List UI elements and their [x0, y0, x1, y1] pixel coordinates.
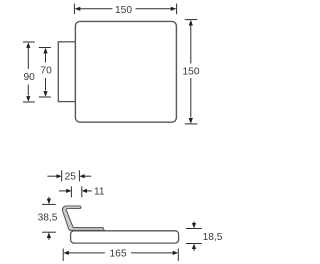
svg-text:38,5: 38,5 — [38, 213, 58, 224]
svg-text:150: 150 — [115, 5, 132, 16]
svg-text:90: 90 — [24, 72, 36, 83]
svg-text:25: 25 — [65, 172, 77, 183]
svg-text:70: 70 — [40, 66, 52, 77]
svg-text:18,5: 18,5 — [203, 232, 223, 243]
svg-text:165: 165 — [110, 249, 127, 260]
svg-text:150: 150 — [183, 66, 200, 77]
svg-text:11: 11 — [94, 187, 105, 198]
